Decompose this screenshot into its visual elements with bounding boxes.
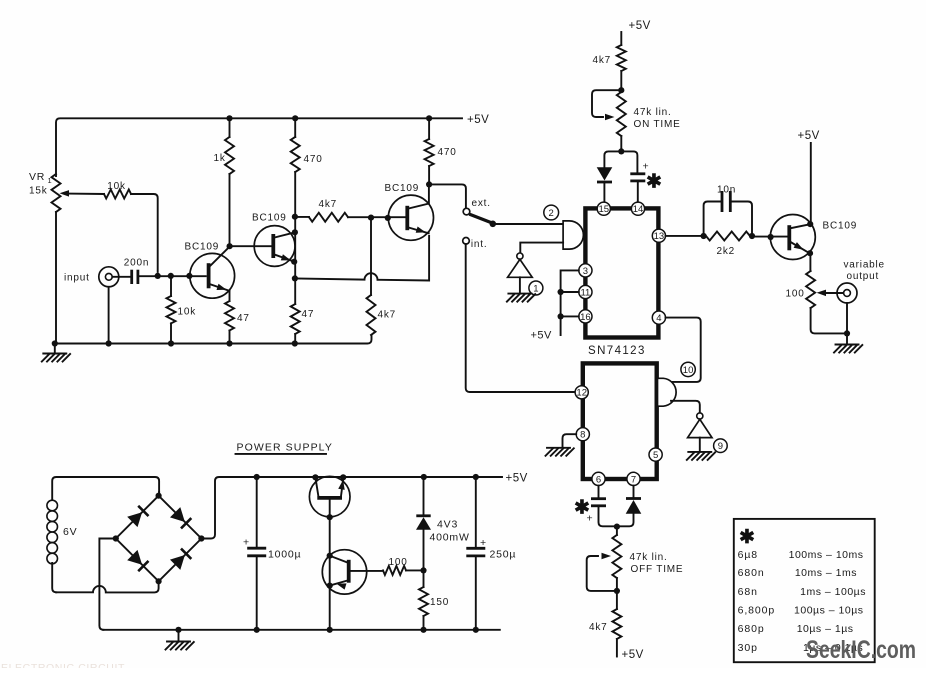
node junction pot/diode/cap xyxy=(618,148,624,154)
pin 4 xyxy=(652,311,665,324)
svg-text:+: + xyxy=(480,537,486,549)
svg-text:16: 16 xyxy=(580,312,591,323)
wire coil bottom to bridge xyxy=(56,581,159,592)
svg-text:BC109: BC109 xyxy=(252,213,287,224)
transistor Q2 BC109 xyxy=(254,226,295,267)
pin 3 xyxy=(579,264,592,277)
node C4 ground junction xyxy=(473,627,479,633)
svg-text:variable: variable xyxy=(844,260,885,271)
resistor 4k7 (on-time) xyxy=(593,32,626,90)
resistor 47 (Q1 emitter) xyxy=(225,291,250,344)
svg-text:3: 3 xyxy=(583,266,588,277)
svg-text:680n: 680n xyxy=(738,567,765,579)
capacitor 10n bypass loop xyxy=(704,191,752,236)
node +5V rail junction 470a xyxy=(292,115,298,121)
rectifier bridge diamond xyxy=(116,496,202,582)
node PS rail 1000u junction xyxy=(254,474,260,480)
node C3 ground junction xyxy=(254,627,260,633)
svg-text:6V: 6V xyxy=(63,526,77,538)
svg-text:input: input xyxy=(64,273,90,284)
resistor 470 (Q3 collector) xyxy=(425,118,457,184)
svg-text:2k2: 2k2 xyxy=(717,246,736,257)
svg-text:+5V: +5V xyxy=(531,330,553,342)
svg-text:6,800p: 6,800p xyxy=(738,605,776,617)
node junction 1k/Q1-collector/Q2-base xyxy=(227,243,233,249)
wiper arrow output pot xyxy=(817,290,844,297)
diode bridge D-BR xyxy=(170,555,185,570)
svg-text:14: 14 xyxy=(633,204,644,215)
svg-text:7: 7 xyxy=(631,474,636,485)
svg-text:int.: int. xyxy=(471,239,488,250)
resistor 1k xyxy=(214,118,235,246)
wire Q3 collector to ext switch xyxy=(429,184,466,208)
table timing capacitor values xyxy=(734,519,875,662)
node Q4 emitter junction xyxy=(807,250,813,256)
node 47a ground junction xyxy=(226,340,232,346)
node junction 4k7/pot xyxy=(618,87,624,93)
node base contact Q1 xyxy=(186,273,192,279)
inverter N1 (pin 1) xyxy=(508,253,533,293)
transistor Q1 BC109 xyxy=(190,247,235,299)
svg-text:470: 470 xyxy=(304,154,323,165)
wire bridge right vertex to +5V rail xyxy=(201,477,502,539)
svg-text:ON TIME: ON TIME xyxy=(634,119,681,130)
svg-text:9: 9 xyxy=(718,441,723,452)
svg-text:4V3: 4V3 xyxy=(437,519,458,531)
wire switch to gate G1 xyxy=(493,223,563,225)
ground (inverter N1) xyxy=(507,294,535,302)
svg-text:47: 47 xyxy=(302,309,315,320)
svg-text:SeekIC.com: SeekIC.com xyxy=(806,636,916,664)
svg-text:47: 47 xyxy=(237,313,250,324)
pin 7 xyxy=(627,472,640,485)
pin 1 label xyxy=(529,281,543,295)
svg-text:+5V: +5V xyxy=(798,130,820,142)
node Q6 0V junction xyxy=(327,627,333,633)
svg-text:680p: 680p xyxy=(738,623,765,635)
label POWER SUPPLY xyxy=(236,442,333,454)
wire +5V top rail xyxy=(56,118,462,176)
pin 11 xyxy=(579,285,592,298)
potentiometer VR1 15k xyxy=(29,171,61,344)
node Q4 collector junction xyxy=(807,221,813,227)
node junction pin16 feed xyxy=(558,313,564,319)
transistor Q5 series pass xyxy=(309,476,350,517)
label 47k lin. OFF TIME xyxy=(630,552,684,575)
resistor 470 (Q2 collector) xyxy=(291,118,323,304)
svg-text:15: 15 xyxy=(599,204,610,215)
node junction 470a/4k7h xyxy=(292,214,298,220)
svg-text:✱: ✱ xyxy=(646,172,662,193)
wire 2k2 to Q4 base xyxy=(752,236,787,238)
node 0V rail ground junction xyxy=(52,340,58,346)
ground (inverter N2) xyxy=(687,452,715,460)
svg-text:200n: 200n xyxy=(124,258,149,269)
svg-text:ELECTRONIC CIRCUIT: ELECTRONIC CIRCUIT xyxy=(1,662,125,668)
node Q6 collector junction xyxy=(327,553,333,559)
wire pin 4 to gate G2 xyxy=(666,318,701,382)
svg-text:11: 11 xyxy=(580,287,590,298)
resistor 4k7 horizontal xyxy=(295,199,406,222)
svg-text:2: 2 xyxy=(549,208,554,219)
node bridge top vertex xyxy=(156,493,162,499)
ground (input section) xyxy=(42,344,70,362)
svg-text:4: 4 xyxy=(656,313,661,324)
svg-text:100ms – 10ms: 100ms – 10ms xyxy=(789,549,864,561)
ground (pin 8) xyxy=(546,448,574,456)
node junction C2/D2/pot xyxy=(614,524,620,530)
node 250u +5V junction xyxy=(473,474,479,480)
pin 15 xyxy=(597,202,610,215)
ground (variable output) xyxy=(834,333,862,352)
svg-text:150: 150 xyxy=(430,597,449,608)
IC U1 SN74123 outline xyxy=(585,208,658,337)
svg-text:15k: 15k xyxy=(29,186,48,197)
svg-text:47k lin.: 47k lin. xyxy=(630,552,668,563)
node junction Q2 emitter xyxy=(291,259,297,265)
wire pin 13 to 2k2 xyxy=(666,235,704,237)
svg-text:8: 8 xyxy=(580,430,585,441)
potentiometer 47k lin ON TIME xyxy=(592,90,626,151)
pin 14 xyxy=(631,202,644,215)
IC U2 SN74123 outline xyxy=(583,363,657,479)
svg-text:+5V: +5V xyxy=(506,473,528,485)
node junction 10k/200n/base xyxy=(155,273,161,279)
node +5V rail junction 1k xyxy=(226,115,232,121)
node junction 4k7h/4k7v xyxy=(368,215,374,221)
diode bridge D-BL xyxy=(127,550,142,565)
wire PS 0V rail xyxy=(103,629,500,631)
resistor 2k2 xyxy=(706,232,750,258)
pin 10 label xyxy=(681,362,695,376)
node output ground junction xyxy=(844,330,850,336)
diode bridge D-TL xyxy=(127,512,142,527)
svg-text:100: 100 xyxy=(389,557,408,568)
node 150 ground junction xyxy=(420,627,426,633)
node junction 200n/10k-shunt xyxy=(168,273,174,279)
potentiometer 100 (variable output) xyxy=(786,253,848,333)
resistor 10k shunt to ground xyxy=(167,276,197,344)
connector variable output jack xyxy=(837,283,857,333)
svg-text:1ms – 100µs: 1ms – 100µs xyxy=(800,586,866,598)
svg-text:12: 12 xyxy=(576,388,587,399)
capacitor 200n xyxy=(112,258,205,285)
resistor 100 (PS) xyxy=(383,557,424,575)
transistor Q3 BC109 xyxy=(388,184,433,240)
node junction 2k2/10n left xyxy=(701,233,707,239)
svg-text:+: + xyxy=(243,537,249,549)
node Q3 base contact xyxy=(385,215,391,221)
svg-text:BC109: BC109 xyxy=(823,221,858,232)
capacitor C4 250u xyxy=(466,477,485,630)
svg-text:10k: 10k xyxy=(178,307,197,318)
gate G1 (AND shape at pin 2) xyxy=(563,221,583,249)
svg-text:250µ: 250µ xyxy=(490,549,517,561)
node junction Q2 collector xyxy=(292,229,298,235)
wire pin 7 to D2 xyxy=(633,486,635,497)
svg-text:SN74123: SN74123 xyxy=(588,345,646,357)
diode D2 (pin 7) xyxy=(616,499,641,527)
wire pin 6 to C2 xyxy=(598,486,600,498)
connector ext contact xyxy=(463,208,470,215)
svg-text:400mW: 400mW xyxy=(430,532,470,544)
svg-text:4k7: 4k7 xyxy=(589,622,608,633)
wire +5V to pins 3/11/16 xyxy=(561,270,579,335)
svg-text:100µs – 10µs: 100µs – 10µs xyxy=(794,605,863,617)
svg-text:4k7: 4k7 xyxy=(593,55,612,66)
svg-text:1: 1 xyxy=(533,283,538,294)
wire Q5 base to Q6 xyxy=(329,517,331,630)
capacitor C2 (timing, pin 6) xyxy=(591,499,617,527)
wire emitter bus with hop xyxy=(295,236,429,281)
svg-text:ext.: ext. xyxy=(472,198,491,209)
ground (power supply) xyxy=(166,630,194,650)
svg-text:10k: 10k xyxy=(107,181,126,192)
switch arm xyxy=(469,214,491,223)
pin 9 label xyxy=(714,439,728,453)
connector input jack xyxy=(99,267,119,344)
node bridge bottom vertex xyxy=(156,578,162,584)
capacitor C3 1000u xyxy=(247,477,266,630)
node Q5 emitter junction xyxy=(340,474,346,480)
diode D1 (pin 15) xyxy=(597,167,613,202)
node junction pot wiper off-time xyxy=(614,588,620,594)
wire int to pin 12 xyxy=(466,244,576,392)
pin 13 xyxy=(652,229,665,242)
svg-text:1k: 1k xyxy=(214,153,226,164)
wire pin 8 to ground xyxy=(563,434,577,447)
transistor Q6 error amp xyxy=(322,550,383,594)
node junction Q3 collector/ext wire xyxy=(426,181,432,187)
svg-text:1000µ: 1000µ xyxy=(268,549,301,561)
wire bridge top vertex feed xyxy=(158,492,160,496)
capacitor C1 (pin 14, timing) xyxy=(630,174,645,202)
node junction pin11 feed xyxy=(558,289,564,295)
node Q6 emitter junction xyxy=(327,583,333,589)
svg-text:BC109: BC109 xyxy=(385,183,420,194)
svg-text:10n: 10n xyxy=(717,185,736,196)
svg-text:6µ8: 6µ8 xyxy=(738,549,758,561)
node +5V rail junction 470b xyxy=(426,115,432,121)
svg-text:47k lin.: 47k lin. xyxy=(634,107,672,118)
node Q4 base contact xyxy=(768,234,774,240)
svg-text:68n: 68n xyxy=(738,586,758,598)
svg-text:4k7: 4k7 xyxy=(378,310,397,321)
node 47b ground junction xyxy=(292,340,298,346)
inverter N2 (pin 9) xyxy=(688,413,712,451)
resistor 47 (Q2 emitter) xyxy=(291,304,315,344)
svg-text:4k7: 4k7 xyxy=(319,199,338,210)
svg-text:470: 470 xyxy=(438,147,457,158)
wire gate G1 lower input to inverter N1 xyxy=(520,243,563,254)
node junction emitter bus xyxy=(292,275,298,281)
transistor Q4 BC109 output xyxy=(770,215,815,260)
pin 5 xyxy=(649,448,662,461)
svg-text:✱: ✱ xyxy=(739,527,755,548)
node zener +5V junction xyxy=(421,474,427,480)
svg-text:VR: VR xyxy=(29,171,45,183)
pin 2 label xyxy=(544,205,559,220)
node switch pole xyxy=(490,221,497,228)
wire 0V bottom rail xyxy=(56,335,372,344)
node input jack ground junction xyxy=(106,340,112,346)
resistor 150 xyxy=(419,570,449,629)
pin 6 xyxy=(592,472,605,485)
potentiometer 47k lin OFF TIME xyxy=(587,527,622,591)
wire bridge left vertex to 0V xyxy=(99,539,115,630)
svg-text:POWER SUPPLY: POWER SUPPLY xyxy=(237,442,333,454)
svg-text:output: output xyxy=(847,271,880,282)
label variable output xyxy=(844,260,885,283)
node 10k-shunt ground junction xyxy=(168,340,174,346)
svg-text:+5V: +5V xyxy=(629,20,651,32)
pin 12 xyxy=(575,386,588,399)
connector int contact xyxy=(463,238,470,245)
svg-text:6: 6 xyxy=(596,474,601,485)
node bridge right vertex xyxy=(198,535,204,541)
svg-text:10: 10 xyxy=(683,365,694,376)
node Q5 collector junction xyxy=(312,474,318,480)
svg-text:10ms – 1ms: 10ms – 1ms xyxy=(795,567,857,579)
wire to diode D1 and cap C1 xyxy=(604,151,637,173)
svg-text:+5V: +5V xyxy=(467,114,489,126)
pin 16 xyxy=(579,310,592,323)
label 4V3 400mW xyxy=(430,519,470,544)
wire gate G2 to inverter N2 xyxy=(671,401,700,414)
pin 8 xyxy=(576,428,589,441)
resistor 10k (feedback to VR1) xyxy=(104,181,158,272)
svg-text:30p: 30p xyxy=(738,642,758,654)
svg-text:+: + xyxy=(587,513,593,525)
svg-text:100: 100 xyxy=(786,289,805,300)
svg-text:BC109: BC109 xyxy=(185,242,220,253)
diode bridge D-TR xyxy=(170,507,185,522)
node bridge left vertex xyxy=(113,535,119,541)
resistor 4k7 (off-time) xyxy=(589,591,621,657)
inductor 6V transformer winding xyxy=(47,477,159,592)
svg-text:OFF TIME: OFF TIME xyxy=(631,564,684,575)
gate G2 (AND shape at pin 10) xyxy=(658,378,677,406)
wire +5V to Q4 collector xyxy=(810,143,812,224)
node zener/100/150 junction xyxy=(420,567,426,573)
node junction 2k2/10n right xyxy=(749,233,755,239)
wire Q2 base xyxy=(230,245,272,247)
node PS ground junction xyxy=(175,627,181,633)
svg-text:1: 1 xyxy=(48,176,52,185)
label 47k lin. ON TIME xyxy=(634,107,681,130)
svg-text:+5V: +5V xyxy=(622,649,644,661)
svg-text:10µs – 1µs: 10µs – 1µs xyxy=(797,623,854,635)
zener D5 4V3 xyxy=(416,477,431,570)
resistor 4k7 vertical xyxy=(367,218,397,335)
svg-text:13: 13 xyxy=(654,231,665,242)
node Q5 base stem junction xyxy=(327,514,333,520)
svg-text:5: 5 xyxy=(653,450,658,461)
wiper arrow of VR1 xyxy=(60,190,105,197)
